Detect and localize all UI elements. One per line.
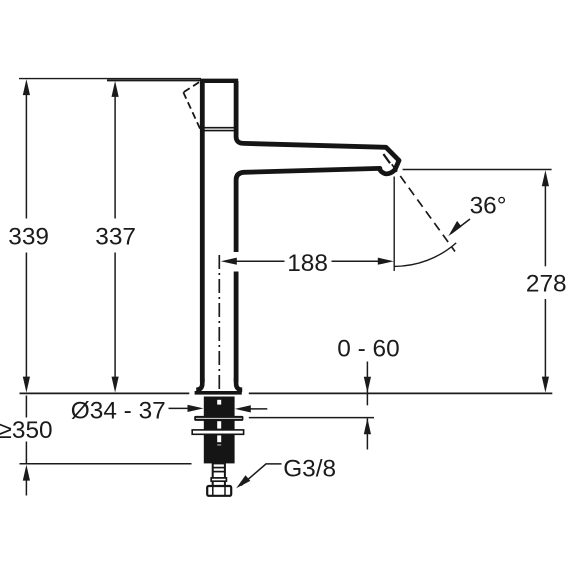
extension line spout outlet 278 bbox=[403, 169, 552, 171]
handle top edge bbox=[200, 79, 238, 83]
mounting shank below counter bbox=[192, 255, 243, 496]
arrow 337 down bbox=[112, 377, 119, 393]
thread collar bbox=[211, 478, 226, 481]
0-60 lower reference line bbox=[249, 417, 374, 419]
svg-text:G3/8: G3/8 bbox=[283, 456, 336, 483]
dimension 339 vertical bbox=[25, 93, 27, 380]
shank lower black block bbox=[204, 435, 235, 464]
hex nut bbox=[207, 486, 231, 496]
lower wall line (>=350 bottom) bbox=[20, 463, 192, 465]
angle arc 36deg bbox=[394, 243, 456, 267]
arrow 337 up bbox=[112, 81, 119, 97]
svg-text:0 - 60: 0 - 60 bbox=[337, 335, 399, 362]
svg-text:≥350: ≥350 bbox=[0, 417, 53, 444]
arrow 36deg leader bbox=[448, 221, 461, 236]
arrow 278 up bbox=[542, 170, 549, 186]
arrow 188 right bbox=[378, 258, 394, 265]
arrow 278 down bbox=[542, 377, 549, 393]
svg-text:339: 339 bbox=[8, 224, 49, 251]
arrow 339 up bbox=[23, 79, 30, 95]
dimension 0-60 arrows bbox=[366, 362, 368, 450]
washer 2 bbox=[192, 430, 243, 434]
arrow 188 left bbox=[221, 258, 237, 265]
svg-text:36°: 36° bbox=[470, 193, 507, 220]
extension line top 339 bbox=[19, 78, 201, 80]
faucet body right wall lower segment bbox=[234, 272, 239, 383]
dimension 337 vertical bbox=[114, 93, 116, 380]
svg-text:Ø34 - 37: Ø34 - 37 bbox=[71, 397, 166, 424]
shank mid black block bbox=[204, 420, 235, 429]
centerline above counter bbox=[218, 255, 220, 394]
leader diameter 34-37 right bbox=[247, 408, 267, 410]
faucet body left wall bbox=[200, 80, 205, 382]
handle base double line bbox=[200, 127, 238, 129]
arrow diameter left pointing right bbox=[188, 405, 204, 412]
arrow 0-60 down at countertop bbox=[364, 377, 371, 393]
handle tilted dashed position bbox=[183, 82, 202, 132]
base flare right curve bbox=[236, 378, 242, 390]
leader 36deg bbox=[451, 219, 470, 234]
svg-text:337: 337 bbox=[95, 224, 136, 251]
arrow 0-60 up at lower line bbox=[364, 418, 371, 434]
arrow 339 down bbox=[23, 377, 30, 393]
leader G3/8 bbox=[241, 464, 282, 486]
leader diameter 34-37 left bbox=[169, 407, 193, 409]
base flare bottom bar bbox=[195, 391, 242, 395]
centerline white dashes over shank bbox=[217, 400, 221, 446]
dimension >=350 vertical bbox=[25, 396, 27, 496]
washer 1 bbox=[194, 416, 243, 421]
extension line spout tip vertical bbox=[393, 177, 395, 272]
stream direction dashed line 36deg bbox=[392, 164, 455, 251]
svg-text:188: 188 bbox=[287, 250, 328, 277]
faucet body right wall and spout outline bbox=[236, 81, 399, 252]
base flare left curve bbox=[196, 378, 202, 390]
shank upper black block bbox=[204, 397, 235, 417]
extension line top 337 bbox=[107, 79, 201, 81]
countertop line bbox=[20, 392, 553, 394]
thread ridge lines bbox=[212, 467, 226, 469]
hex nut facet lines bbox=[212, 487, 214, 496]
svg-text:278: 278 bbox=[526, 270, 567, 297]
arrow >=350 up at lower line bbox=[23, 465, 30, 481]
threaded tail rod bbox=[213, 463, 225, 486]
dimension 188 horizontal bbox=[234, 260, 380, 262]
arrow diameter right pointing left bbox=[235, 405, 251, 412]
dimension 278 vertical bbox=[544, 184, 546, 378]
spout aerator face line bbox=[383, 154, 390, 163]
arrow G3/8 leader bbox=[236, 475, 250, 488]
